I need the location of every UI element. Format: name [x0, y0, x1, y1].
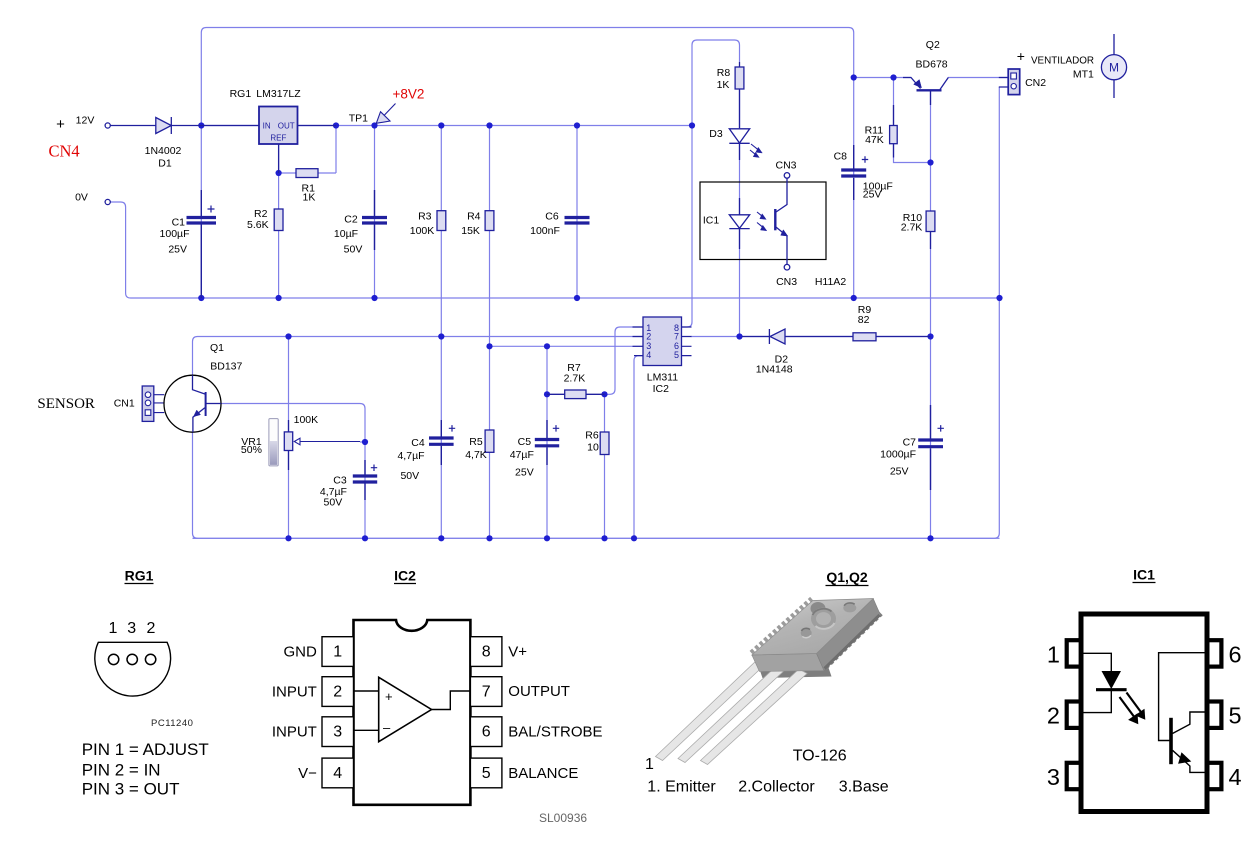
- svg-text:Q1,Q2: Q1,Q2: [826, 569, 867, 585]
- svg-text:C3: C3: [333, 475, 347, 487]
- svg-text:D3: D3: [709, 128, 723, 140]
- node C8 gnd: [851, 295, 857, 301]
- node R2 gnd: [276, 295, 282, 301]
- regulator RG1 body: [259, 107, 298, 145]
- svg-text:10µF: 10µF: [334, 228, 358, 240]
- wire R6 column: [604, 394, 606, 538]
- svg-text:Q1: Q1: [210, 342, 224, 354]
- svg-text:82: 82: [858, 314, 870, 326]
- svg-text:0V: 0V: [75, 192, 88, 204]
- resistor R2: [274, 209, 283, 231]
- PACKAGE IC1: [1047, 567, 1242, 812]
- hole big: [811, 608, 836, 630]
- node C7 gnd: [927, 535, 933, 541]
- wire R7 node to pin1: [605, 327, 644, 394]
- WIRES-BOTTOM: [193, 327, 1000, 538]
- pin box 3: [322, 717, 354, 747]
- svg-text:C6: C6: [545, 211, 559, 223]
- svg-text:R3: R3: [418, 211, 432, 223]
- potentiometer VR1 body: [284, 432, 292, 451]
- transistor Q2: [903, 78, 921, 89]
- svg-text:2: 2: [646, 331, 651, 341]
- svg-text:GND: GND: [284, 644, 322, 661]
- emitter to pin4: [1173, 750, 1208, 772]
- pin box 5: [470, 758, 502, 788]
- svg-text:12V: 12V: [76, 115, 95, 127]
- svg-text:BAL/STROBE: BAL/STROBE: [508, 724, 602, 741]
- svg-text:3.Base: 3.Base: [839, 779, 889, 796]
- pin hole 1: [108, 654, 118, 664]
- svg-text:5: 5: [482, 765, 491, 782]
- svg-text:2: 2: [333, 684, 342, 701]
- svg-text:8: 8: [482, 644, 491, 661]
- svg-text:IC1: IC1: [703, 215, 720, 227]
- capacitor C2: [374, 190, 376, 250]
- svg-text:47K: 47K: [865, 134, 884, 146]
- terminal 0V: [105, 199, 110, 204]
- hole small right: [843, 603, 856, 612]
- LED IC1 internal: [739, 198, 741, 215]
- resistor R7: [565, 390, 586, 399]
- node R3 top: [438, 122, 444, 128]
- wire Q1 collector loop / pin2 line: [193, 337, 644, 376]
- body top face: [752, 599, 873, 656]
- wire pin4 vertical: [634, 356, 643, 539]
- svg-text:1N4002: 1N4002: [145, 145, 182, 157]
- svg-text:6: 6: [1229, 642, 1242, 668]
- wire RG1 IN lead: [201, 125, 259, 127]
- capacitor C4: [440, 420, 442, 465]
- node D1 out: [198, 122, 204, 128]
- PACKAGE RG1: [82, 568, 209, 799]
- svg-text:REF: REF: [270, 133, 286, 142]
- wire C5 column: [546, 346, 548, 538]
- svg-text:7: 7: [482, 684, 491, 701]
- svg-text:25V: 25V: [168, 244, 187, 256]
- svg-text:+8V2: +8V2: [393, 87, 425, 102]
- node wiper C3: [362, 439, 368, 445]
- svg-text:100K: 100K: [410, 225, 435, 237]
- wire pin3 line: [490, 345, 644, 347]
- svg-text:4: 4: [333, 765, 342, 782]
- svg-text:1. Emitter: 1. Emitter: [647, 779, 716, 796]
- resistor R9: [853, 333, 876, 341]
- svg-text:OUT: OUT: [278, 122, 295, 131]
- wire Q1 base to C3 column: [221, 404, 365, 443]
- svg-text:R4: R4: [467, 211, 481, 223]
- svg-text:1000µF: 1000µF: [880, 448, 916, 460]
- svg-text:BD137: BD137: [210, 361, 242, 373]
- wire CN2 pin stubs: [999, 78, 1008, 88]
- wire C3 column: [364, 442, 366, 538]
- pin hole 3: [127, 654, 137, 664]
- node R6 gnd: [601, 535, 607, 541]
- svg-text:SL00936: SL00936: [539, 811, 587, 825]
- svg-text:15K: 15K: [461, 225, 480, 237]
- svg-text:6: 6: [482, 724, 491, 741]
- capacitor C5: [546, 420, 548, 465]
- svg-text:PIN 2 = IN: PIN 2 = IN: [82, 761, 161, 780]
- diode D2: [770, 329, 785, 344]
- svg-text:3: 3: [333, 724, 342, 741]
- wire C1 column: [200, 126, 202, 299]
- node CN2 gnd: [996, 295, 1002, 301]
- svg-text:RG1: RG1: [230, 88, 252, 100]
- diode D1: [156, 118, 172, 134]
- wire pin3 to opamp: [354, 729, 379, 731]
- node C2 gnd: [371, 295, 377, 301]
- svg-text:CN2: CN2: [1025, 77, 1046, 89]
- body right fins: [826, 614, 882, 668]
- arrows IC1 emission: [757, 212, 764, 228]
- svg-text:V+: V+: [508, 644, 527, 661]
- capacitor C3: [364, 460, 366, 500]
- svg-text:CN3: CN3: [775, 160, 796, 172]
- node R8 rail: [689, 122, 695, 128]
- svg-text:R8: R8: [717, 67, 731, 79]
- COMPONENTS BOTTOM: [142, 317, 944, 500]
- svg-text:1N4148: 1N4148: [756, 363, 793, 375]
- wire C6 column: [576, 126, 578, 299]
- svg-text:4: 4: [1229, 764, 1242, 790]
- leg 1: [656, 660, 766, 761]
- body left fins: [751, 599, 812, 653]
- svg-text:C4: C4: [411, 437, 425, 449]
- svg-text:INPUT: INPUT: [272, 724, 321, 741]
- svg-text:25V: 25V: [890, 466, 909, 478]
- leg 3: [701, 669, 808, 765]
- terminal 12V: [105, 123, 110, 128]
- svg-text:D1: D1: [158, 158, 172, 170]
- node R7 right R6: [601, 391, 607, 397]
- resistor R8: [739, 62, 741, 67]
- wiper arrow VR1: [294, 438, 300, 445]
- pin 5: [1207, 702, 1221, 728]
- terminal CN3 top: [784, 173, 790, 179]
- body right face: [817, 599, 881, 671]
- COMPONENTS TOP: [105, 34, 1127, 298]
- svg-text:4,7K: 4,7K: [465, 449, 487, 461]
- capacitor C8: [853, 145, 855, 200]
- hole counterbore: [811, 602, 826, 615]
- node R4 pin3: [486, 343, 492, 349]
- svg-text:BD678: BD678: [916, 59, 948, 71]
- svg-text:10: 10: [587, 442, 599, 454]
- svg-text:TP1: TP1: [349, 113, 368, 125]
- node R7 left: [544, 391, 550, 397]
- svg-text:50V: 50V: [324, 497, 343, 509]
- wire CN2 lower pin down right side: [193, 87, 1000, 538]
- node REF R1 R2: [276, 170, 282, 176]
- node R11 top: [890, 74, 896, 80]
- wire wiper to C3 node: [360, 441, 365, 443]
- wire Q2 collector to CN2: [948, 77, 1008, 79]
- svg-text:IN: IN: [263, 122, 271, 131]
- svg-text:100nF: 100nF: [530, 225, 560, 237]
- resistor R11: [890, 126, 898, 144]
- wire RG1 OUT lead: [298, 125, 337, 127]
- node R4 top: [486, 122, 492, 128]
- wire R1 leads: [279, 126, 336, 174]
- svg-text:OUTPUT: OUTPUT: [508, 683, 570, 700]
- base bar: [1169, 718, 1173, 764]
- resistor R10: [926, 211, 935, 232]
- svg-text:LM311: LM311: [647, 372, 678, 384]
- node D3 pin7: [736, 333, 742, 339]
- svg-text:3: 3: [1047, 764, 1060, 790]
- node R1 out: [333, 122, 339, 128]
- base line from pin6: [1159, 653, 1208, 741]
- svg-text:H11A2: H11A2: [815, 276, 846, 288]
- svg-text:LM317LZ: LM317LZ: [256, 88, 301, 100]
- svg-text:2: 2: [147, 620, 156, 637]
- svg-text:4,7µF: 4,7µF: [397, 450, 424, 462]
- svg-text:–: –: [383, 720, 391, 735]
- svg-text:25V: 25V: [863, 189, 882, 201]
- motor MT1: [1113, 34, 1115, 98]
- node C5 gnd: [544, 535, 550, 541]
- wire opamp out to pin7: [432, 691, 471, 710]
- wire Q2 base R10 C7 column: [930, 91, 932, 539]
- pin box 8: [470, 637, 502, 667]
- svg-text:2.7K: 2.7K: [564, 373, 586, 385]
- svg-text:3: 3: [127, 620, 136, 637]
- svg-text:CN4: CN4: [49, 142, 80, 161]
- svg-text:PC11240: PC11240: [151, 718, 193, 729]
- svg-text:R5: R5: [469, 436, 483, 448]
- svg-text:BALANCE: BALANCE: [508, 765, 578, 782]
- wire R2 column: [278, 173, 280, 298]
- svg-text:SENSOR: SENSOR: [37, 396, 95, 412]
- capacitor C6: [565, 218, 590, 224]
- svg-text:1: 1: [645, 756, 654, 773]
- svg-text:50V: 50V: [344, 244, 363, 256]
- wire bottom rail: [193, 537, 1000, 539]
- svg-text:1K: 1K: [717, 79, 730, 91]
- svg-text:100µF: 100µF: [160, 228, 190, 240]
- svg-text:7: 7: [674, 331, 679, 341]
- wire top loop from C1 column to C8 column: [201, 28, 853, 126]
- node C6 gnd: [574, 295, 580, 301]
- node VR1 gnd: [285, 535, 291, 541]
- svg-text:V−: V−: [298, 765, 321, 782]
- pin box 4: [322, 758, 354, 788]
- svg-text:100K: 100K: [294, 414, 319, 426]
- wire R3-C4 column: [440, 126, 442, 539]
- LED D3: [729, 129, 749, 143]
- node C6 top: [574, 122, 580, 128]
- pin box 7: [470, 677, 502, 707]
- svg-text:5.6K: 5.6K: [247, 219, 269, 231]
- svg-text:Q2: Q2: [926, 39, 940, 51]
- opamp triangle: [379, 677, 432, 741]
- svg-text:C7: C7: [903, 437, 917, 449]
- wire C8 column: [853, 78, 855, 299]
- svg-text:C2: C2: [344, 213, 358, 225]
- svg-text:1: 1: [1047, 642, 1060, 668]
- pin box 6: [470, 717, 502, 747]
- node C5 pin3: [544, 343, 550, 349]
- pin box 1: [322, 637, 354, 667]
- svg-text:C8: C8: [834, 151, 848, 163]
- wire pin7 D2 R9 line: [691, 336, 931, 338]
- svg-text:5: 5: [674, 350, 679, 360]
- node TP1: [371, 122, 377, 128]
- wire pin8 vertical: [682, 126, 693, 328]
- wire VR1 column: [288, 337, 290, 539]
- connector CN2: [1008, 69, 1020, 95]
- svg-text:C1: C1: [172, 217, 186, 229]
- svg-text:TO-126: TO-126: [793, 748, 847, 765]
- svg-text:1: 1: [109, 620, 118, 637]
- node pin4 gnd: [631, 535, 637, 541]
- hole small left: [801, 629, 812, 638]
- PACKAGE Q1 Q2: [645, 569, 889, 796]
- wire R4-R5 column: [489, 126, 491, 539]
- LED triangle: [1102, 671, 1122, 689]
- node C3 gnd: [362, 535, 368, 541]
- wire R8 top loop: [692, 40, 740, 126]
- capacitor C1: [200, 190, 202, 298]
- phototransistor IC1: [774, 209, 776, 230]
- optocoupler IC1 box: [700, 182, 826, 260]
- resistor R4: [485, 211, 494, 231]
- wire D1 leads: [110, 125, 201, 127]
- pin 1: [1067, 640, 1081, 666]
- pin 2: [1067, 702, 1081, 728]
- comparator IC2 body: [643, 317, 682, 366]
- pin 4: [1207, 763, 1221, 789]
- wire D3 column to pin7 line: [739, 90, 741, 337]
- wire RG1 REF lead: [278, 144, 280, 173]
- svg-text:2.7K: 2.7K: [901, 222, 923, 234]
- svg-text:IC2: IC2: [653, 383, 670, 395]
- svg-text:M: M: [1109, 61, 1119, 75]
- label IC2 pin numbers: [646, 323, 679, 360]
- potentiometer VR1 slider graphic: [269, 419, 278, 466]
- node R5 gnd: [486, 535, 492, 541]
- LED arrows: [1120, 693, 1143, 719]
- svg-text:IC1: IC1: [1133, 567, 1155, 583]
- node R3 pin2: [438, 333, 444, 339]
- svg-text:VENTILADOR: VENTILADOR: [1031, 56, 1094, 67]
- svg-text:4: 4: [646, 350, 651, 360]
- svg-text:50V: 50V: [400, 470, 419, 482]
- body bottom dark strip: [757, 661, 832, 679]
- node R9 out: [927, 333, 933, 339]
- svg-text:C5: C5: [518, 436, 532, 448]
- svg-text:25V: 25V: [515, 467, 534, 479]
- resistor R1: [296, 169, 318, 178]
- wire R11 column: [894, 78, 931, 163]
- svg-text:47µF: 47µF: [510, 449, 534, 461]
- SCHEMATIC LABELS: [37, 39, 1119, 509]
- svg-text:1K: 1K: [303, 192, 316, 204]
- pin 6: [1207, 640, 1221, 666]
- arrows D3 emission: [750, 144, 760, 155]
- pin 3: [1067, 763, 1081, 789]
- svg-text:2: 2: [1047, 703, 1060, 729]
- svg-text:MT1: MT1: [1073, 68, 1094, 80]
- terminal CN3 bottom: [784, 264, 790, 270]
- PACKAGE IC2: [272, 568, 603, 826]
- svg-text:R6: R6: [585, 430, 599, 442]
- resistor R3: [437, 211, 446, 231]
- leg 2: [678, 665, 786, 763]
- pin hole 2: [145, 654, 155, 664]
- testpoint TP1 arrow: [376, 112, 390, 124]
- node C4 gnd: [438, 535, 444, 541]
- body: [1081, 614, 1207, 812]
- svg-text:RG1: RG1: [125, 568, 154, 584]
- svg-text:+: +: [385, 689, 393, 704]
- svg-text:1: 1: [333, 644, 342, 661]
- node R11 R10 base: [927, 159, 933, 165]
- pin box 2: [322, 677, 354, 707]
- wire main +8V2 rail: [201, 125, 692, 127]
- svg-text:50%: 50%: [241, 444, 262, 456]
- pins IC2: [633, 327, 692, 356]
- body front face: [752, 654, 824, 672]
- node C1 gnd: [198, 295, 204, 301]
- DIP8 body: [354, 620, 471, 805]
- emitter arrowhead: [1178, 752, 1191, 764]
- wire Q1 emitter down: [193, 432, 198, 538]
- svg-text:2.Collector: 2.Collector: [738, 779, 815, 796]
- LED bar: [1096, 688, 1127, 691]
- node C8 top: [851, 74, 857, 80]
- wire pin2 to opamp: [354, 690, 379, 692]
- transistor Q1: [164, 375, 221, 432]
- wire 0V to mid rail: [111, 202, 1000, 298]
- package TO-92 outline: [95, 642, 171, 696]
- collector to pin5: [1173, 712, 1208, 734]
- svg-text:INPUT: INPUT: [272, 684, 321, 701]
- svg-text:IC2: IC2: [394, 568, 416, 584]
- svg-text:CN3: CN3: [776, 276, 797, 288]
- svg-text:+: +: [1017, 48, 1025, 64]
- resistor R5: [485, 430, 494, 452]
- connector CN1: [142, 386, 154, 421]
- resistor R6: [600, 432, 609, 455]
- LED circuit: [1081, 653, 1111, 712]
- node VR1 top: [285, 333, 291, 339]
- svg-text:+: +: [56, 116, 65, 133]
- body right face dark edge: [825, 615, 880, 669]
- wire REF pin down: [278, 144, 280, 173]
- capacitor C7: [930, 405, 932, 490]
- wire C8 to Q2 emitter: [854, 77, 911, 79]
- svg-text:5: 5: [1229, 703, 1242, 729]
- svg-text:CN1: CN1: [114, 398, 135, 410]
- svg-text:PIN 3 = OUT: PIN 3 = OUT: [82, 780, 180, 799]
- svg-text:PIN 1 = ADJUST: PIN 1 = ADJUST: [82, 740, 209, 759]
- WIRES-TOP: [111, 28, 1009, 539]
- wire C2 column: [374, 126, 376, 299]
